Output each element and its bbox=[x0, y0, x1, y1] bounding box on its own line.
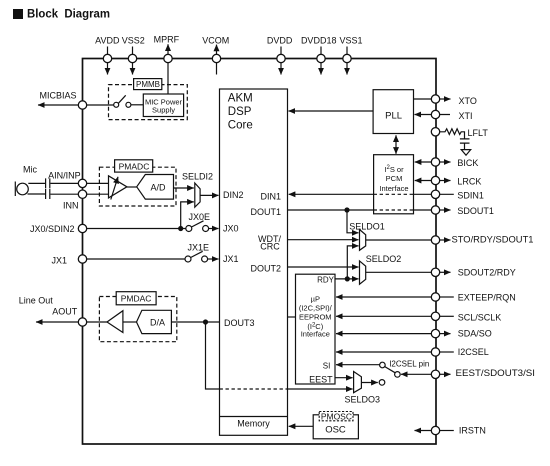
wire LRCK bbox=[415, 180, 432, 182]
wire D/A to amp bbox=[123, 321, 137, 323]
D/A converter bbox=[137, 310, 172, 333]
svg-text:DIN2: DIN2 bbox=[223, 190, 244, 200]
wire MPRF to MIC Power Supply bbox=[167, 59, 169, 95]
pin arrow AVDD down bbox=[107, 63, 109, 75]
svg-text:XTO: XTO bbox=[459, 96, 477, 106]
svg-text:DOUT2: DOUT2 bbox=[250, 263, 281, 273]
svg-text:JX0E: JX0E bbox=[189, 212, 211, 222]
svg-text:SDA/SO: SDA/SO bbox=[458, 329, 492, 339]
PLL box bbox=[373, 90, 413, 134]
pin STO/RDY/SDOUT1 bbox=[431, 236, 439, 244]
svg-text:µP: µP bbox=[311, 295, 320, 304]
svg-text:CRC: CRC bbox=[260, 242, 280, 252]
svg-text:JX0/SDIN2: JX0/SDIN2 bbox=[30, 224, 75, 234]
wire JX0 into core bbox=[209, 228, 219, 230]
pin VSS2 bbox=[128, 54, 136, 62]
wire dashed through core bbox=[220, 388, 288, 390]
svg-text:(I2C,SPI)/: (I2C,SPI)/ bbox=[299, 303, 333, 312]
wire PLL to core bbox=[289, 110, 374, 112]
svg-text:Line Out: Line Out bbox=[19, 295, 54, 305]
pin MPRF bbox=[164, 54, 172, 62]
svg-text:SELDO1: SELDO1 bbox=[349, 222, 385, 232]
pin LFLT bbox=[431, 128, 439, 136]
pin I2CSEL bbox=[431, 348, 439, 356]
svg-text:SI: SI bbox=[323, 361, 331, 370]
pin arrow VSS1 down bbox=[346, 63, 348, 75]
switch JX1E bbox=[185, 256, 191, 262]
svg-text:I2CSEL: I2CSEL bbox=[458, 347, 489, 357]
wire cap to INN bbox=[50, 193, 82, 195]
wire DOUT3 to D/A bbox=[171, 321, 219, 323]
wire branch to SELDI2 lower input bbox=[181, 202, 194, 229]
wire MICBIAS to switch bbox=[87, 104, 114, 106]
svg-text:LRCK: LRCK bbox=[457, 176, 481, 186]
svg-text:SDOUT1: SDOUT1 bbox=[457, 206, 494, 216]
PMMB label box bbox=[134, 79, 162, 90]
svg-text:SDOUT2/RDY: SDOUT2/RDY bbox=[458, 268, 516, 278]
pin SDIN1 bbox=[431, 190, 439, 198]
pin LRCK bbox=[431, 176, 439, 184]
pin arrow DVDD down bbox=[280, 63, 282, 75]
MIC Power Supply box bbox=[143, 94, 183, 117]
pin SDOUT2/RDY bbox=[431, 268, 439, 276]
pin MICBIAS bbox=[78, 101, 86, 109]
svg-text:PLL: PLL bbox=[385, 111, 402, 122]
svg-text:DIN1: DIN1 bbox=[260, 191, 281, 201]
chip outline bbox=[83, 59, 437, 445]
svg-text:PMOSC: PMOSC bbox=[321, 412, 352, 422]
mux SELDO1 bbox=[360, 230, 366, 251]
svg-text:VSS1: VSS1 bbox=[339, 36, 362, 46]
svg-text:DVDD: DVDD bbox=[267, 36, 293, 46]
pin arrow DVDD18 down bbox=[320, 63, 322, 75]
pin INN bbox=[78, 190, 86, 198]
mux SELDO2 bbox=[360, 261, 366, 284]
svg-text:OSC: OSC bbox=[325, 424, 346, 435]
wire VSS2 stub bbox=[132, 47, 134, 55]
wire SDA/SO bbox=[336, 333, 431, 335]
svg-text:STO/RDY/SDOUT1: STO/RDY/SDOUT1 bbox=[452, 234, 534, 244]
wire amp to A/D bbox=[127, 186, 137, 188]
svg-text:LFLT: LFLT bbox=[468, 128, 489, 138]
pin EEST/SDOUT3/SI bbox=[431, 370, 439, 378]
core box bbox=[220, 89, 288, 435]
svg-text:Memory: Memory bbox=[237, 418, 270, 428]
svg-text:DSP: DSP bbox=[228, 106, 252, 118]
pin arrow VSS2 down bbox=[132, 63, 134, 75]
I2S box bbox=[374, 155, 414, 214]
wire switch to MIC Power Supply bbox=[131, 104, 143, 106]
svg-text:SELDI2: SELDI2 bbox=[182, 171, 213, 181]
pin SDA/SO bbox=[431, 329, 439, 337]
memory separator bbox=[220, 416, 288, 418]
mux SELDO3 bbox=[354, 372, 362, 393]
svg-text:AIN/INP: AIN/INP bbox=[48, 170, 81, 180]
svg-text:PCM: PCM bbox=[386, 174, 403, 183]
wire AOUT to amp bbox=[87, 321, 108, 323]
wire SCL/SCLK bbox=[336, 315, 431, 317]
svg-text:MICBIAS: MICBIAS bbox=[39, 90, 76, 100]
wire core to SELDO3 lower input bbox=[288, 388, 353, 390]
PMDAC label box bbox=[116, 292, 156, 305]
svg-text:DVDD18: DVDD18 bbox=[301, 36, 337, 46]
svg-text:AKM: AKM bbox=[228, 92, 253, 104]
svg-text:Mic: Mic bbox=[23, 165, 37, 175]
wire EEST to SELDO3 bbox=[335, 377, 353, 379]
svg-text:JX1E: JX1E bbox=[188, 243, 210, 253]
wire SDIN1 dashed in box bbox=[374, 193, 414, 195]
MICBIAS arrow out bbox=[38, 104, 83, 106]
wire cap to AIN/INP bbox=[50, 182, 82, 184]
svg-text:JX0: JX0 bbox=[223, 224, 239, 234]
switch JX0E bbox=[186, 226, 192, 232]
pin SCL/SCLK bbox=[431, 312, 439, 320]
pin DVDD18 bbox=[317, 54, 325, 62]
svg-text:EEST/SDOUT3/SI: EEST/SDOUT3/SI bbox=[456, 368, 536, 378]
wire SDIN1 bbox=[414, 193, 454, 195]
wire branch to SELDO1 bbox=[347, 210, 359, 233]
wire SELDO3 to throw bbox=[361, 382, 377, 384]
pin DVDD bbox=[277, 54, 285, 62]
pin IRSTN bbox=[431, 426, 439, 434]
PMADC dashed box bbox=[99, 167, 176, 206]
wire A/D to SELDI2 bbox=[174, 187, 194, 189]
ground bbox=[461, 150, 471, 156]
node DOUT3 bbox=[203, 319, 208, 324]
svg-text:DOUT3: DOUT3 bbox=[224, 318, 255, 328]
wire OSC to Memory bbox=[289, 425, 314, 427]
pin XTO bbox=[431, 95, 439, 103]
pin VCOM bbox=[212, 54, 220, 62]
pin arrow MPRF up bbox=[167, 44, 169, 54]
DAC amplifier triangle bbox=[107, 311, 123, 333]
wire DVDD stub bbox=[280, 47, 282, 55]
wire XTO bbox=[414, 98, 432, 100]
wire INN to amp bbox=[87, 193, 109, 195]
node DOUT1 branch bbox=[344, 207, 349, 212]
wire SELDO2 to SDOUT2 pin bbox=[366, 271, 432, 273]
svg-text:SELDO3: SELDO3 bbox=[345, 395, 381, 405]
svg-text:BICK: BICK bbox=[457, 158, 478, 168]
svg-text:VCOM: VCOM bbox=[202, 36, 229, 46]
capacitor bottom bbox=[46, 189, 50, 199]
svg-text:AOUT: AOUT bbox=[52, 306, 78, 316]
svg-text:MPRF: MPRF bbox=[154, 34, 180, 44]
svg-text:EXTEEP/RQN: EXTEEP/RQN bbox=[458, 293, 516, 303]
svg-text:EEST: EEST bbox=[309, 374, 333, 384]
wire SELDI2 to DIN2 bbox=[200, 194, 218, 196]
wire BICK bbox=[415, 161, 432, 163]
pin AOUT bbox=[78, 318, 86, 326]
wire JX1 row bbox=[87, 258, 186, 260]
capacitor top bbox=[46, 178, 50, 188]
wire SDOUT1/DOUT1 bbox=[288, 209, 432, 211]
svg-text:DOUT1: DOUT1 bbox=[250, 207, 281, 217]
gain arrow bbox=[111, 177, 118, 200]
svg-text:JX1: JX1 bbox=[51, 255, 67, 265]
switch PMMB bbox=[114, 102, 119, 107]
capacitor LFLT bbox=[460, 139, 470, 150]
resistor LFLT bbox=[440, 129, 465, 139]
switch I2CSEL pin bbox=[380, 362, 386, 368]
svg-text:XTI: XTI bbox=[459, 111, 473, 121]
svg-text:I2CSEL pin: I2CSEL pin bbox=[389, 359, 429, 368]
pin SDOUT1 bbox=[431, 206, 439, 214]
svg-text:INN: INN bbox=[63, 201, 79, 211]
wire mic bottom to cap bbox=[28, 193, 46, 195]
pin JX1 bbox=[78, 255, 86, 263]
wire JX1 into core bbox=[208, 258, 219, 260]
wire RDY branch to SELDO1 bbox=[347, 246, 358, 279]
PMDAC dashed box bbox=[99, 297, 176, 342]
svg-text:PMDAC: PMDAC bbox=[121, 294, 152, 304]
dashed line DOUT3 to uP region bbox=[288, 316, 296, 318]
svg-text:Core: Core bbox=[228, 120, 253, 132]
svg-text:AVDD: AVDD bbox=[95, 36, 120, 46]
PMMB dashed box bbox=[109, 85, 188, 120]
pin AVDD bbox=[103, 54, 111, 62]
node RDY branch bbox=[345, 276, 350, 281]
wire DOUT2 to SELDO2 bbox=[288, 266, 359, 268]
wire DVDD18 stub bbox=[320, 47, 322, 55]
wire pole to EEST pin bbox=[401, 373, 431, 375]
wire mic top to cap bbox=[28, 182, 45, 184]
wire RDY row bbox=[335, 278, 359, 280]
svg-text:D/A: D/A bbox=[150, 318, 165, 328]
wire AVDD stub bbox=[107, 47, 109, 55]
title bullet bbox=[13, 9, 23, 19]
PMOSC OSC box bbox=[313, 415, 358, 439]
wire EXTEEP/RQN bbox=[336, 296, 431, 298]
wire VCOM stub down bbox=[216, 63, 218, 75]
pin EXTEEP/RQN bbox=[431, 293, 439, 301]
wire SELDO1 to STO pin bbox=[366, 239, 432, 241]
wire PLL-I2S double arrow bbox=[395, 138, 397, 151]
wire I2CSEL bbox=[336, 351, 431, 353]
svg-text:IRSTN: IRSTN bbox=[459, 426, 486, 436]
wire XTI bbox=[431, 114, 450, 116]
svg-text:VSS2: VSS2 bbox=[122, 36, 145, 46]
pin arrow VCOM up bbox=[216, 45, 218, 55]
amplifier triangle bbox=[109, 176, 127, 198]
PMADC label box bbox=[115, 160, 153, 172]
pin XTI bbox=[431, 110, 439, 118]
wire SI to switch bbox=[336, 364, 380, 366]
svg-text:Interface: Interface bbox=[301, 330, 330, 339]
svg-text:SCL/SCLK: SCL/SCLK bbox=[458, 312, 502, 322]
wire JX0/SDIN2 row bbox=[87, 228, 186, 230]
A/D converter bbox=[137, 175, 174, 200]
svg-text:JX1: JX1 bbox=[223, 254, 239, 264]
svg-text:A/D: A/D bbox=[150, 182, 166, 192]
uP box bbox=[296, 274, 336, 384]
wire AIN/INP to amp bbox=[87, 182, 109, 184]
svg-text:SDIN1: SDIN1 bbox=[457, 190, 484, 200]
Mic symbol bbox=[14, 182, 16, 197]
wire WDT/CRC to SELDO1 bbox=[288, 239, 359, 241]
svg-text:SELDO2: SELDO2 bbox=[366, 254, 402, 264]
svg-text:RDY: RDY bbox=[317, 275, 335, 284]
wire SDOUT1 dashed in box bbox=[374, 209, 414, 211]
svg-text:Interface: Interface bbox=[379, 184, 408, 193]
wire IRSTN bbox=[415, 430, 432, 432]
pin JX0/SDIN2 bbox=[78, 224, 86, 232]
svg-text:PMMB: PMMB bbox=[136, 80, 160, 89]
svg-text:Supply: Supply bbox=[152, 106, 175, 115]
pin BICK bbox=[431, 158, 439, 166]
AOUT arrow out bbox=[36, 321, 83, 323]
svg-text:EEPROM: EEPROM bbox=[299, 313, 332, 322]
svg-text:PMADC: PMADC bbox=[119, 162, 150, 172]
mux SELDI2 bbox=[195, 183, 200, 207]
pin VSS1 bbox=[343, 54, 351, 62]
wire DOUT3 branch down bbox=[206, 322, 220, 389]
svg-text:Block Diagram: Block Diagram bbox=[27, 6, 110, 20]
node JX0 branch bbox=[178, 226, 183, 231]
wire VSS1 stub bbox=[346, 47, 348, 55]
pin AIN/INP bbox=[78, 179, 86, 187]
